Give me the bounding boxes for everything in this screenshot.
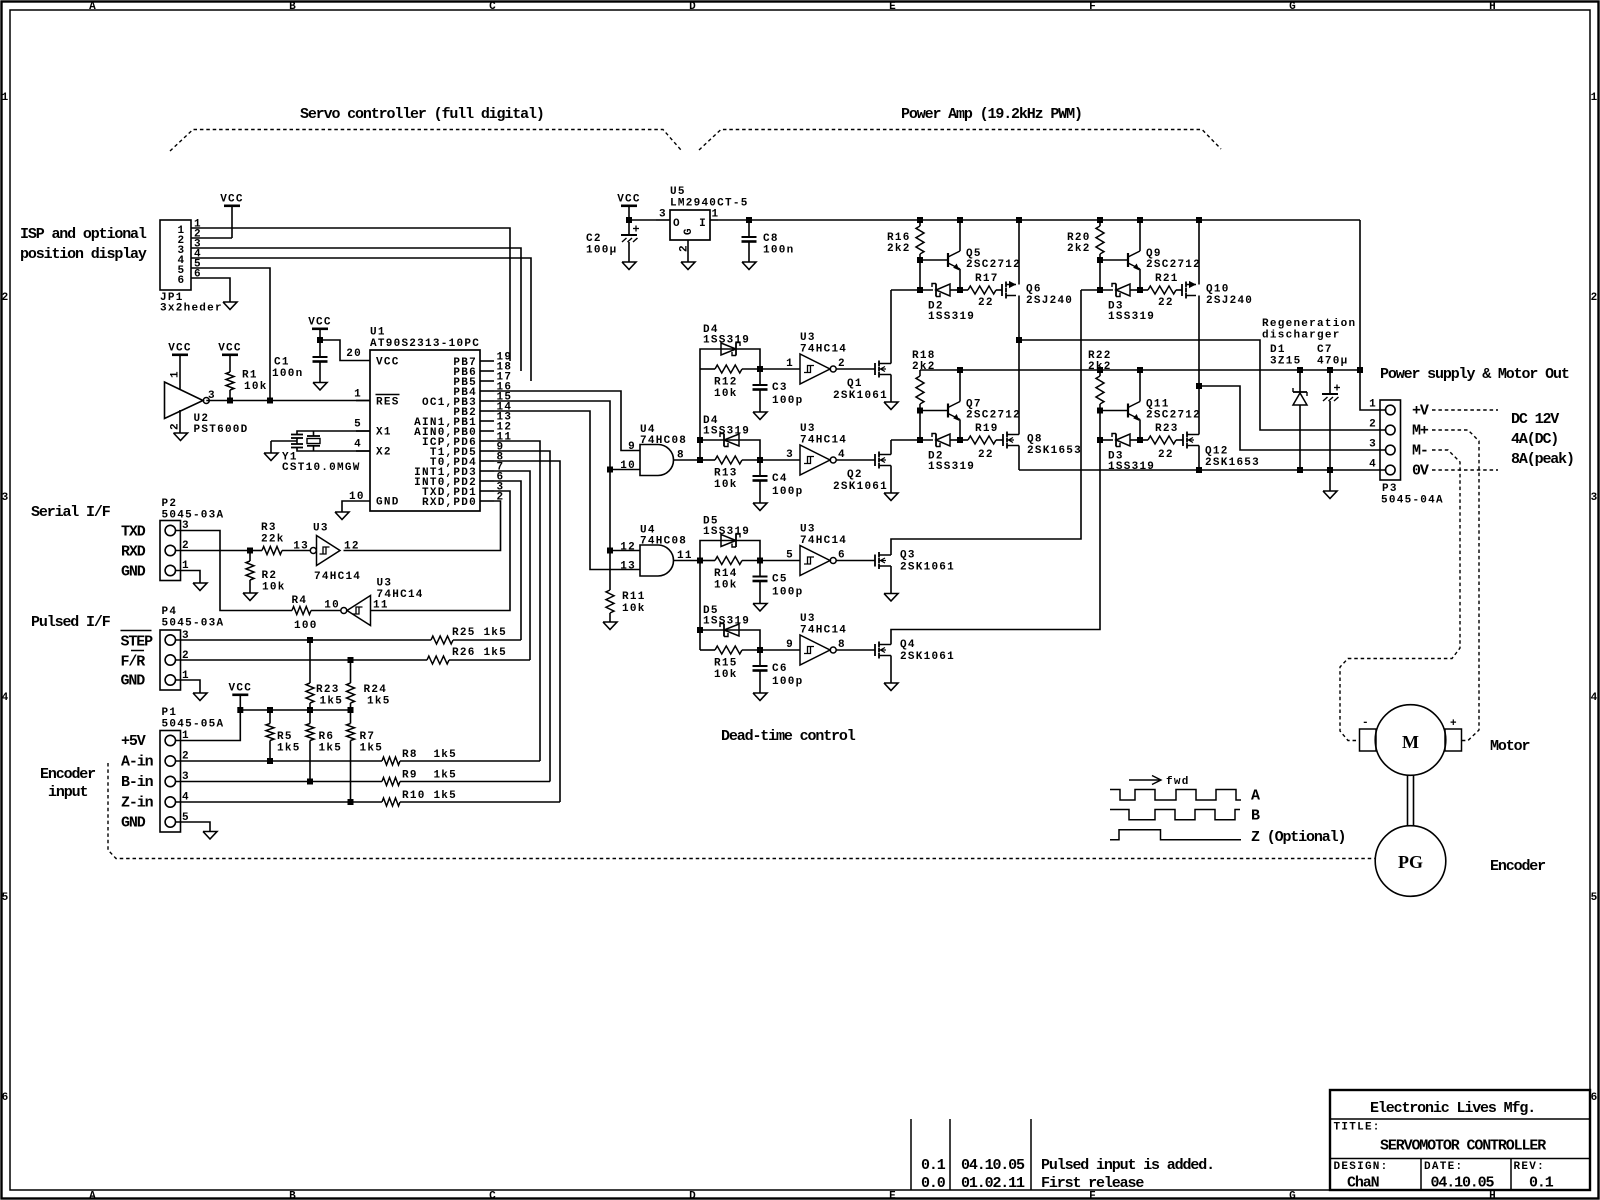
ground at Q2	[884, 493, 898, 501]
diode D2 upper labels	[928, 301, 975, 324]
transistor Q9 2SC2712	[1100, 220, 1140, 290]
svg-text:1SS319: 1SS319	[928, 461, 975, 473]
svg-text:2: 2	[1369, 419, 1377, 431]
svg-text:B: B	[289, 1191, 297, 1200]
svg-text:5045-03A: 5045-03A	[162, 510, 225, 522]
node PWM to gate2 input12	[607, 548, 613, 554]
ground at Q4	[884, 683, 898, 691]
revision row 0.0	[921, 1175, 1144, 1192]
svg-text:A-in: A-in	[121, 754, 154, 771]
svg-text:R25 1k5: R25 1k5	[452, 627, 507, 639]
ground at R11	[603, 622, 617, 630]
wire C7 to ground	[1329, 470, 1331, 491]
power VCC symbol at JP1	[220, 194, 244, 239]
diode D5 1SS319 channel 4	[700, 624, 760, 651]
svg-text:3: 3	[2, 492, 10, 504]
title label Servo controller	[300, 106, 544, 123]
svg-text:22: 22	[1158, 297, 1174, 309]
Q4 labels	[900, 639, 955, 663]
svg-text:AT90S2313-10PC: AT90S2313-10PC	[370, 338, 480, 350]
svg-text:input: input	[48, 784, 87, 801]
svg-text:VCC: VCC	[617, 194, 641, 206]
power VCC symbol at C1	[308, 317, 332, 341]
wire Q10 source to rail	[1196, 217, 1202, 285]
wire Y1 mid tap to ground	[271, 441, 297, 453]
wire +12V rail second	[920, 369, 1360, 371]
svg-text:10: 10	[324, 600, 340, 612]
wire P2 pin2 RXD	[176, 550, 251, 552]
serial tx inverter labels	[377, 578, 424, 602]
svg-text:100n: 100n	[763, 245, 794, 257]
transistor Q7 2SC2712	[920, 370, 960, 440]
title block title text	[1380, 1138, 1546, 1155]
svg-text:C6: C6	[772, 663, 788, 675]
bold pin label GND	[121, 673, 146, 690]
inverter U3 74HC14 channel 3	[760, 546, 836, 576]
svg-text:74HC14: 74HC14	[314, 571, 361, 583]
svg-text:D: D	[689, 1191, 697, 1200]
wire inverter to Q3 gate	[836, 560, 875, 562]
svg-text:1SS319: 1SS319	[1108, 311, 1155, 323]
resistor R15 10k	[700, 646, 760, 681]
node R20 base junction	[1097, 257, 1103, 263]
node PWM to gate1 input10	[607, 467, 613, 473]
svg-text:TXD: TXD	[121, 524, 146, 541]
wire gate1 input10	[610, 469, 640, 471]
svg-text:REV:: REV:	[1514, 1161, 1545, 1173]
svg-text:5: 5	[2, 892, 10, 904]
diode D3 upper labels	[1108, 301, 1155, 324]
Q12 labels	[1205, 446, 1260, 470]
svg-text:1k5: 1k5	[319, 743, 343, 755]
diode D5 labels channel 4	[703, 605, 750, 628]
ground at U1 GND	[335, 512, 349, 520]
svg-text:2: 2	[1591, 292, 1599, 304]
title block DESIGN field	[1334, 1161, 1389, 1192]
svg-text:74HC14: 74HC14	[800, 625, 847, 637]
svg-text:0.0: 0.0	[921, 1175, 946, 1192]
svg-text:Q12: Q12	[1205, 446, 1229, 458]
connector JP1 3x2 header	[160, 220, 191, 290]
IC U1 AT90S2313-10PC box	[370, 350, 480, 511]
IC U5 LM2940CT-5	[656, 209, 719, 263]
bold label ISP and optional position display	[20, 226, 147, 263]
svg-text:U3: U3	[377, 578, 393, 590]
svg-text:B: B	[289, 1, 297, 13]
bold pin label F/R with overline	[121, 651, 146, 671]
svg-text:6: 6	[178, 275, 186, 287]
node channel 2 RC junction	[757, 457, 763, 463]
P3 labels	[1381, 483, 1444, 507]
svg-text:U5: U5	[670, 186, 686, 198]
svg-text:4: 4	[1591, 692, 1599, 704]
svg-text:VCC: VCC	[308, 317, 332, 329]
svg-text:1k5: 1k5	[277, 743, 301, 755]
P4 pin numbers	[182, 630, 190, 682]
title block dividers	[1330, 1119, 1590, 1190]
svg-text:R9 1k5: R9 1k5	[402, 770, 457, 782]
svg-text:GND: GND	[121, 815, 146, 832]
revision row 0.1	[921, 1157, 1214, 1174]
bold label Regeneration discharger	[1262, 318, 1356, 342]
svg-text:U3: U3	[800, 524, 816, 536]
waveform A	[1110, 790, 1241, 801]
svg-text:100p: 100p	[772, 486, 803, 498]
svg-text:P2: P2	[162, 498, 178, 510]
svg-text:PST600D: PST600D	[194, 424, 249, 436]
C7 labels	[1317, 344, 1348, 368]
node F/R R24 junction	[348, 657, 354, 663]
svg-text:2SJ240: 2SJ240	[1026, 295, 1073, 307]
U1 left pin names	[376, 357, 400, 509]
svg-text:5045-03A: 5045-03A	[162, 618, 225, 630]
svg-text:VCC: VCC	[376, 357, 400, 369]
fwd arrow	[1129, 776, 1161, 785]
svg-text:Q1: Q1	[847, 378, 863, 390]
svg-text:2SC2712: 2SC2712	[966, 410, 1021, 422]
svg-text:R11: R11	[622, 591, 646, 603]
transistor Q4 2SK1061	[875, 642, 891, 659]
node RXD R2 junction	[247, 548, 253, 554]
revision table lines	[911, 1119, 1031, 1190]
inverter labels channel 1	[800, 332, 847, 356]
svg-text:P1: P1	[162, 707, 178, 719]
wire Q1 source to ground	[890, 375, 892, 403]
node C1 VCC junction	[317, 337, 323, 343]
wire Q3 source to ground	[890, 566, 892, 594]
diode D4 1SS319 channel 2	[700, 434, 760, 461]
ground at R2	[243, 593, 257, 601]
P1 labels	[162, 707, 225, 731]
svg-text:B-in: B-in	[121, 774, 154, 791]
svg-text:VCC: VCC	[168, 343, 192, 355]
ground at Q1	[884, 402, 898, 410]
resistor R17 22	[960, 273, 1002, 309]
encoder PG letters	[1398, 852, 1423, 872]
svg-text:C8: C8	[763, 233, 779, 245]
bold label Motor	[1490, 738, 1529, 755]
svg-text:C: C	[489, 1, 497, 13]
connector P1 5045-05A	[160, 731, 181, 833]
svg-text:C1: C1	[274, 357, 290, 369]
svg-text:fwd: fwd	[1166, 776, 1190, 788]
wire inverter to Q2 gate	[836, 459, 875, 461]
svg-text:R15: R15	[714, 658, 738, 670]
connector P4 5045-03A	[160, 630, 181, 690]
svg-text:M: M	[1402, 732, 1419, 752]
grid column labels bottom	[89, 1191, 1497, 1200]
capacitor C5 100p	[753, 561, 804, 604]
U1 right pin stubs	[480, 361, 494, 501]
grid row labels left	[2, 92, 10, 1104]
node Q11 collector rail	[1137, 367, 1143, 373]
svg-text:74HC08: 74HC08	[640, 435, 687, 447]
capacitor C3 100p	[753, 369, 804, 412]
wire PD6 to encoder A	[494, 441, 540, 761]
svg-text:5045-04A: 5045-04A	[1381, 495, 1444, 507]
svg-text:A: A	[1251, 788, 1260, 805]
JP1 labels	[160, 292, 223, 315]
svg-text:10: 10	[620, 460, 636, 472]
svg-text:2SC2712: 2SC2712	[966, 259, 1021, 271]
bold pin label STEP with overline	[121, 631, 154, 651]
wire P4 pin1 to ground	[176, 680, 201, 693]
diode D2 1SS319 upper	[891, 284, 960, 297]
bold pin labels +V M+ M- 0V	[1412, 403, 1429, 480]
svg-text:Q8: Q8	[1027, 434, 1043, 446]
svg-text:D1: D1	[1270, 344, 1286, 356]
resistor R13 10k	[700, 456, 760, 491]
svg-text:1SS319: 1SS319	[703, 526, 750, 538]
title block box	[1330, 1090, 1590, 1190]
wire U1 X2 to resonator	[297, 448, 370, 451]
svg-text:100: 100	[294, 620, 318, 632]
P3 pin numbers	[1369, 399, 1377, 471]
ground at P1	[203, 832, 217, 840]
inverter pin numbers channel 3	[786, 550, 846, 562]
power VCC symbol at P1	[229, 683, 253, 711]
dashed encoder signal path	[108, 763, 1375, 859]
wire JP1 pin4 to PB5 bus	[191, 258, 531, 381]
wire Q12 source to 0V	[1196, 446, 1202, 474]
svg-text:I: I	[699, 218, 707, 230]
node Q9 collector rail	[1137, 217, 1143, 223]
svg-text:2SK1061: 2SK1061	[833, 390, 888, 402]
resistor R23 22	[1140, 423, 1183, 461]
crystal Y1 CST10.0MGW	[282, 431, 361, 474]
capacitor C2 100u	[586, 220, 639, 262]
capacitor C8 100n	[742, 220, 795, 262]
svg-text:2SK1653: 2SK1653	[1205, 457, 1260, 469]
svg-text:2k2: 2k2	[912, 361, 936, 373]
resistor R23 1k5 pullup	[306, 640, 343, 710]
svg-text:R21: R21	[1155, 273, 1179, 285]
node R22 base junction	[1097, 408, 1103, 414]
wire Q3 drain to upper-right gate-drive row	[891, 290, 1081, 555]
ground at Q3	[884, 594, 898, 602]
wire PD1 to serial inverter	[371, 491, 510, 611]
svg-text:Z (Optional): Z (Optional)	[1251, 829, 1345, 846]
svg-text:U3: U3	[313, 523, 329, 535]
svg-text:DATE:: DATE:	[1424, 1161, 1463, 1173]
title block DATE field	[1424, 1161, 1495, 1192]
title block company name	[1370, 1100, 1535, 1117]
svg-text:5: 5	[354, 419, 362, 431]
svg-text:position display: position display	[20, 246, 147, 263]
svg-text:Electronic Lives Mfg.: Electronic Lives Mfg.	[1370, 1100, 1535, 1117]
svg-text:6: 6	[1591, 1092, 1599, 1104]
wire gate1 output	[674, 459, 701, 461]
ground at C3	[753, 412, 767, 420]
svg-text:R13: R13	[714, 468, 738, 480]
node C8 junction	[746, 217, 752, 223]
svg-text:2k2: 2k2	[887, 243, 911, 255]
svg-text:C4: C4	[772, 473, 788, 485]
svg-text:First release: First release	[1041, 1175, 1144, 1192]
svg-text:22: 22	[1158, 449, 1174, 461]
svg-text:2SJ240: 2SJ240	[1206, 295, 1253, 307]
ground at JP1 pin6	[223, 302, 237, 310]
wire A-in row	[176, 758, 383, 764]
resistor R3 22k	[250, 522, 310, 555]
ground at C7	[1323, 491, 1337, 499]
svg-text:VCC: VCC	[229, 683, 253, 695]
Q7 labels	[966, 399, 1021, 422]
svg-text:100p: 100p	[772, 676, 803, 688]
svg-text:R24: R24	[364, 684, 388, 696]
bold label Dead-time control	[721, 728, 856, 745]
svg-text:2: 2	[2, 292, 10, 304]
svg-text:04.10.05: 04.10.05	[1431, 1175, 1495, 1192]
transistor Q3 2SK1061	[875, 552, 891, 569]
node upper-left diode junction	[917, 287, 923, 293]
svg-text:12: 12	[344, 541, 360, 553]
logic gate U4 gate 2 74HC08	[640, 545, 673, 576]
Q1 labels	[833, 378, 888, 402]
svg-text:Servo controller (full digital: Servo controller (full digital)	[300, 106, 544, 123]
svg-text:5: 5	[786, 550, 794, 562]
svg-text:R4: R4	[292, 595, 308, 607]
resistor R20 2k2	[1067, 217, 1104, 260]
svg-text:R2: R2	[262, 570, 278, 582]
bold pin labels +5V A-in B-in Z-in GND	[121, 733, 154, 832]
wire F/R row	[176, 659, 428, 661]
Q2 labels	[833, 469, 888, 493]
bold label Pulsed I/F	[31, 614, 111, 631]
svg-text:P3: P3	[1382, 483, 1398, 495]
svg-text:A: A	[89, 1191, 97, 1200]
Q6 labels	[1026, 284, 1073, 308]
svg-text:10k: 10k	[244, 381, 268, 393]
U5 labels	[670, 186, 749, 210]
svg-text:ISP and optional: ISP and optional	[20, 226, 147, 243]
ground at C4	[753, 503, 767, 511]
svg-text:discharger: discharger	[1262, 330, 1341, 342]
diode D5 labels channel 3	[703, 516, 750, 539]
svg-text:10k: 10k	[714, 388, 738, 400]
node channel 4 RC junction	[757, 647, 763, 653]
svg-text:RXD,PD0: RXD,PD0	[422, 497, 477, 509]
serial rx inverter labels	[313, 523, 361, 584]
node lower-right diode junction	[1097, 437, 1103, 443]
svg-text:R3: R3	[261, 522, 277, 534]
U2 labels	[194, 413, 249, 436]
wire inverter to Q1 gate	[836, 368, 875, 370]
node Q5 collector rail	[957, 217, 963, 223]
svg-text:1: 1	[1591, 92, 1599, 104]
grid column labels top	[89, 1, 1497, 13]
transistor Q12 2SK1653	[1183, 432, 1199, 449]
resistor R26 1k5	[427, 647, 530, 664]
svg-text:Q4: Q4	[900, 639, 916, 651]
U2 pin3 number	[208, 390, 216, 402]
svg-text:2k2: 2k2	[1067, 243, 1091, 255]
wire U1 X1 to resonator	[297, 431, 370, 434]
P2 pin numbers	[182, 520, 190, 572]
wire Q8 drain to output	[1018, 340, 1020, 435]
P1 pin numbers	[182, 730, 190, 824]
svg-text:R17: R17	[975, 273, 999, 285]
node VCC C2 junction	[626, 217, 632, 223]
svg-text:10k: 10k	[714, 580, 738, 592]
svg-text:M-: M-	[1412, 443, 1428, 460]
resistor R10 1k5	[382, 790, 560, 806]
ground at U2 pin2	[174, 433, 188, 441]
svg-text:RXD: RXD	[121, 544, 146, 561]
serial rx inverter pin numbers	[293, 541, 359, 553]
ground at P4	[193, 693, 207, 701]
svg-text:+: +	[1450, 718, 1458, 730]
svg-text:74HC14: 74HC14	[800, 435, 847, 447]
svg-text:R1: R1	[242, 370, 258, 382]
U4 gate 1 pin numbers	[620, 441, 685, 472]
svg-text:E: E	[889, 1, 897, 13]
wire PD3 to R26	[494, 471, 530, 660]
resistor R9 1k5	[382, 770, 550, 786]
bold label Encoder input	[40, 766, 95, 801]
resistor R21 22	[1140, 273, 1182, 309]
node Q5 emitter junction	[957, 287, 963, 293]
diode D4 1SS319 channel 1	[700, 343, 760, 370]
node Q11 emitter junction	[1137, 437, 1143, 443]
diode D5 1SS319 channel 3	[700, 534, 760, 561]
svg-text:E: E	[889, 1191, 897, 1200]
bold label Power supply & Motor Out	[1380, 366, 1569, 383]
wire RES line U2 to U1	[206, 400, 370, 402]
svg-text:O: O	[673, 218, 681, 230]
svg-text:SERVOMOTOR CONTROLLER: SERVOMOTOR CONTROLLER	[1380, 1138, 1546, 1155]
title label Power Amp	[901, 106, 1082, 123]
wire M+ output from upper bridge	[1019, 340, 1387, 430]
wire M- output from right bridge	[1199, 386, 1387, 450]
svg-text:ChaN: ChaN	[1347, 1175, 1380, 1192]
wire gate2 input12	[610, 550, 640, 552]
svg-text:100µ: 100µ	[586, 245, 617, 257]
wire PD5 to encoder B	[494, 451, 550, 782]
wire Q12 drain to M- node	[1198, 386, 1200, 435]
svg-text:74HC08: 74HC08	[640, 536, 687, 548]
wire R18 junction down	[919, 411, 921, 441]
resistor R18 2k2	[912, 350, 936, 411]
transistor Q6 2SJ240	[1002, 282, 1016, 299]
wire VCC rail to U5 pin3	[629, 219, 656, 221]
inverter U3 74HC14 channel 2	[760, 445, 836, 475]
wire Q6 source to rail	[1016, 217, 1022, 285]
transistor Q2 2SK1061	[875, 452, 891, 469]
inverter labels channel 2	[800, 423, 847, 447]
ground at U5 pin2	[681, 262, 695, 270]
resistor R5 1k5	[266, 707, 301, 761]
wire channel3-4 left link	[697, 558, 703, 651]
motor M letter	[1402, 732, 1419, 752]
dashed wire +V	[1432, 409, 1498, 411]
U1 right pin numbers	[497, 352, 513, 504]
svg-text:74HC14: 74HC14	[800, 535, 847, 547]
svg-text:Z-in: Z-in	[121, 795, 154, 812]
diode D2 lower labels	[928, 451, 975, 474]
svg-text:+V: +V	[1412, 403, 1429, 420]
resistor R7 1k5	[347, 707, 384, 802]
svg-text:U3: U3	[800, 613, 816, 625]
svg-text:Power Amp (19.2kHz PWM): Power Amp (19.2kHz PWM)	[901, 106, 1082, 123]
svg-text:1: 1	[786, 358, 794, 370]
resistor R19 22	[960, 423, 1003, 461]
svg-text:R12: R12	[714, 377, 738, 389]
wire PB2 to gate2 input13	[494, 411, 640, 570]
U4 gate 1 labels	[640, 424, 687, 447]
resistor R25 1k5	[431, 627, 521, 644]
ground at Y1	[264, 453, 278, 461]
